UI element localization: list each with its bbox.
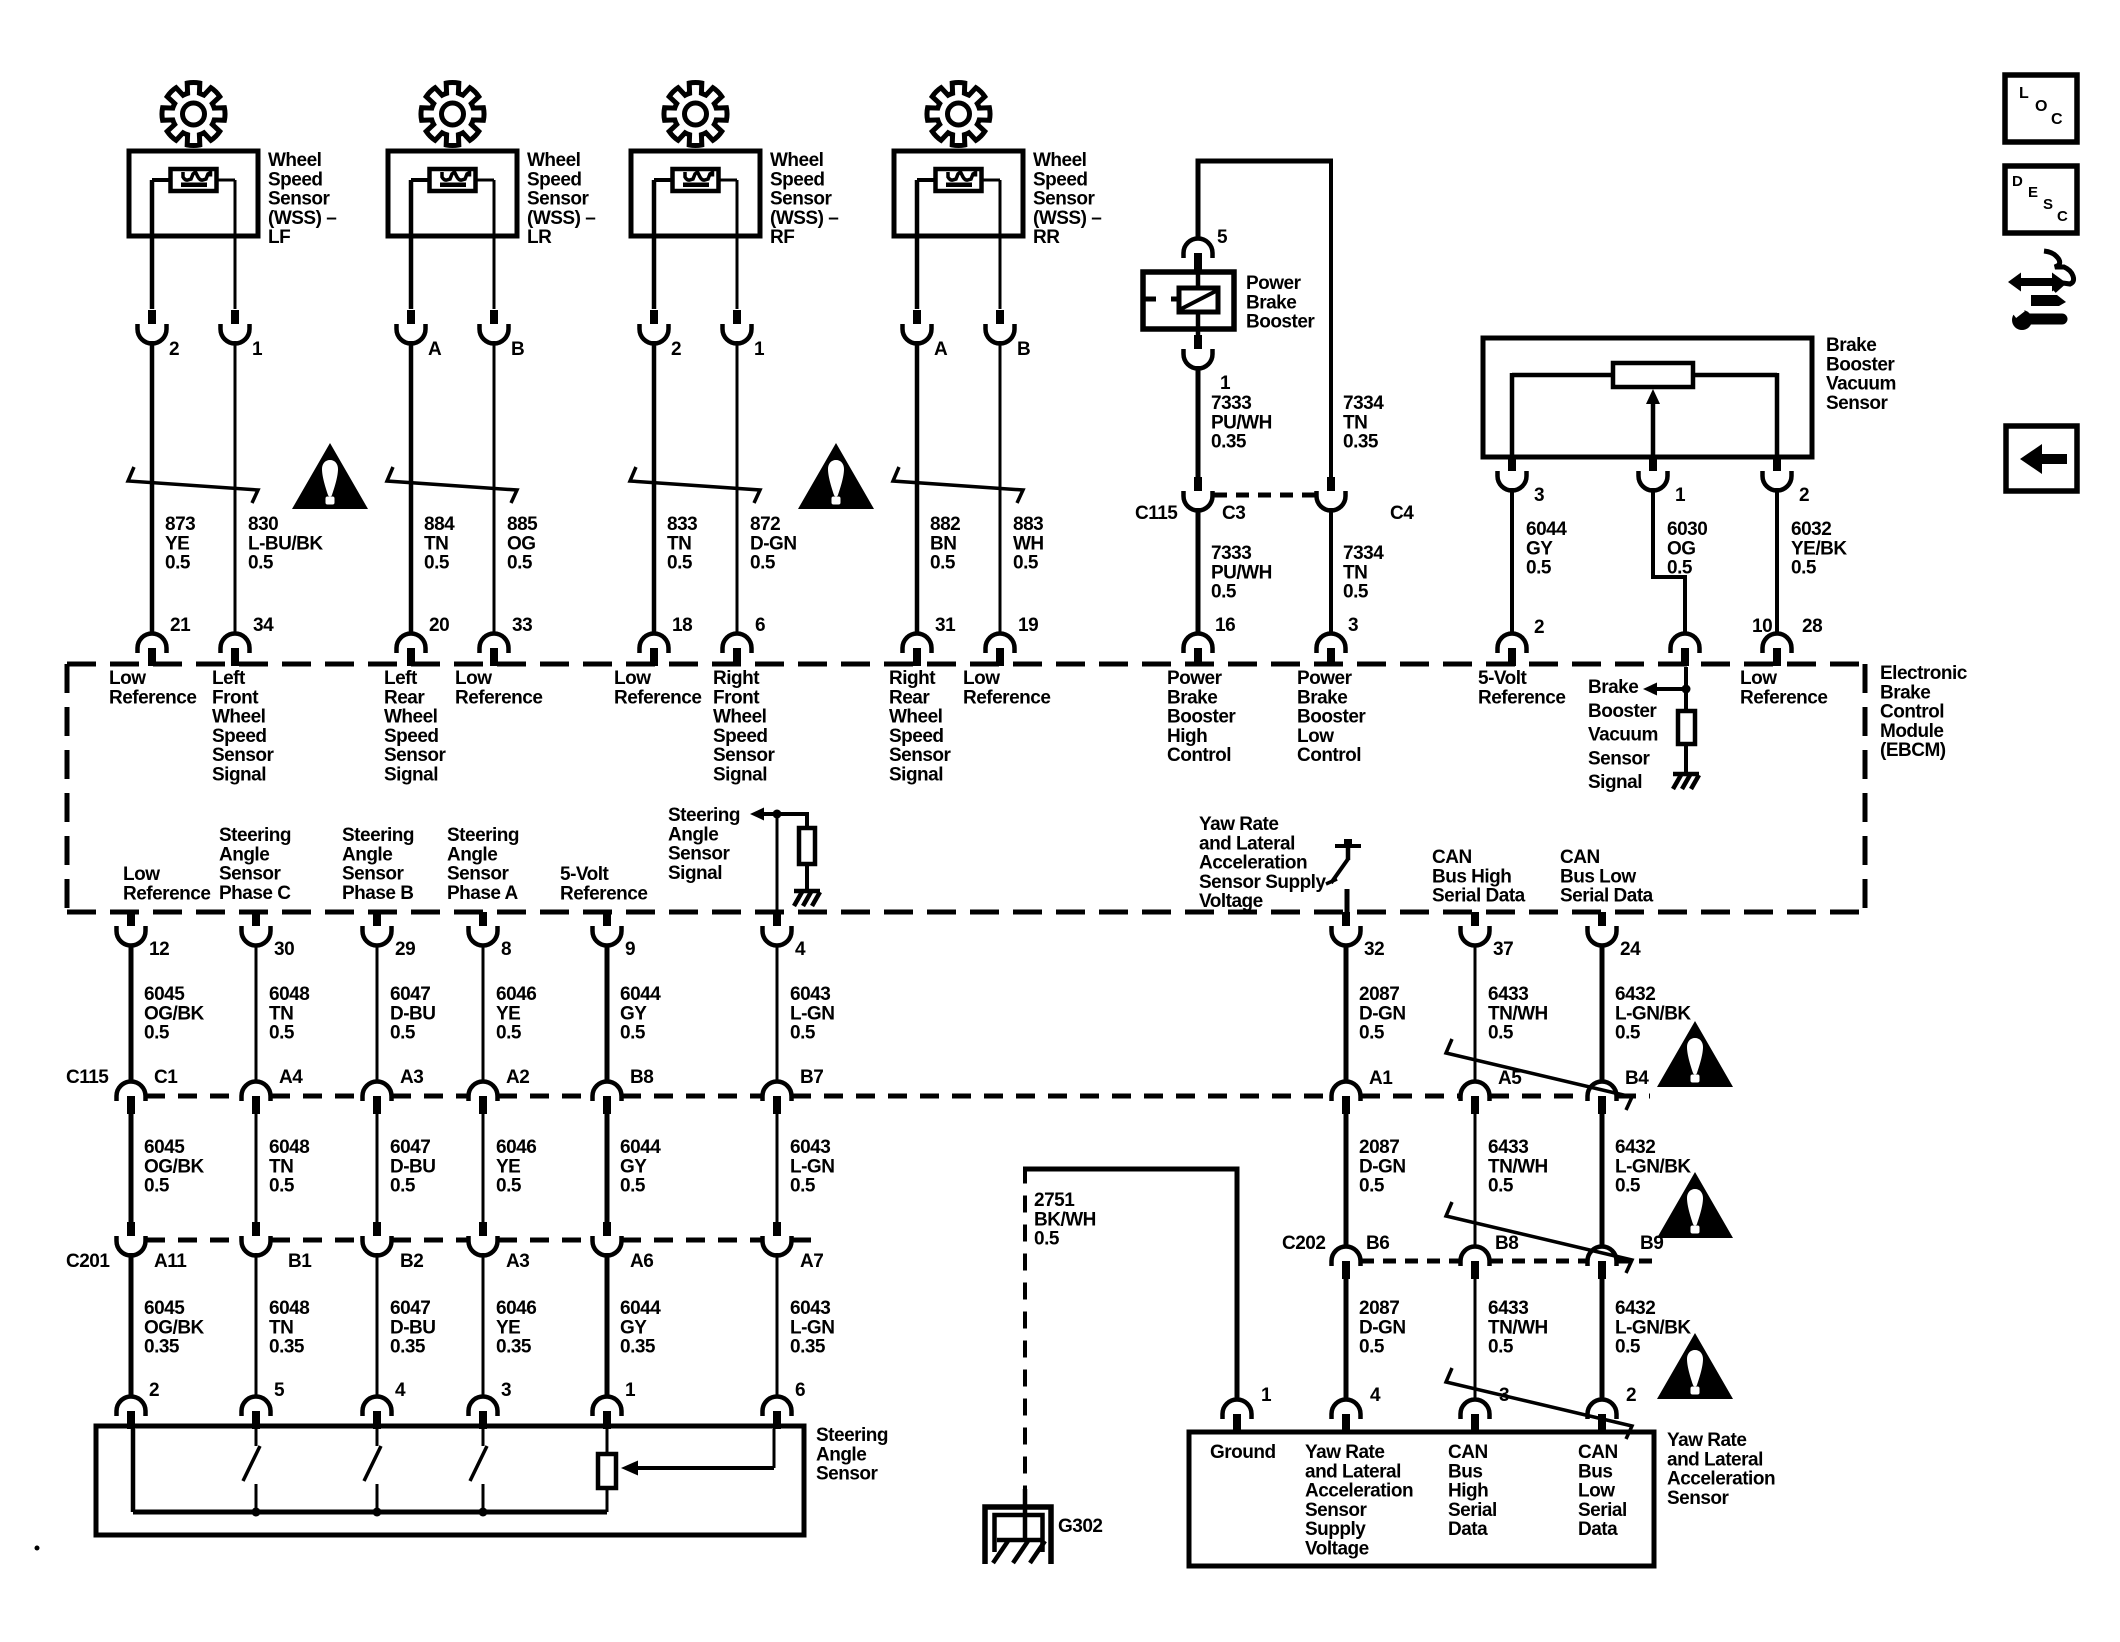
wire 6043 L-GN 0.5 (segment 1) [777,944,834,1082]
svg-text:L-GN: L-GN [790,1317,834,1338]
svg-text:0.35: 0.35 [144,1337,180,1358]
svg-text:O: O [2035,98,2047,115]
svg-text:Data: Data [1448,1519,1488,1540]
svg-text:830: 830 [248,514,278,535]
wire 6432 L-GN/BK 0.5 (segment 3) [1602,1279,1691,1399]
svg-text:1: 1 [1675,485,1686,506]
svg-text:L: L [2019,85,2029,102]
label Wheel Speed Sensor (WSS) - RF [770,150,838,248]
svg-text:0.5: 0.5 [144,1023,170,1044]
svg-text:0.5: 0.5 [790,1023,816,1044]
EBCM pin 31 connector [903,615,957,666]
twisted pair indicator [893,467,1023,503]
wire 6046 YE 0.5 (segment 2) [483,1114,536,1222]
svg-text:0.5: 0.5 [1211,582,1237,603]
svg-text:Bus Low: Bus Low [1560,866,1636,887]
svg-text:C4: C4 [1390,503,1414,524]
wire label 7334 TN 0.35 [1343,393,1384,453]
svg-text:Sensor: Sensor [1667,1488,1730,1509]
EBCM internal label at x=1740 [1740,668,1827,708]
svg-text:0.5: 0.5 [790,1176,816,1197]
svg-text:A2: A2 [506,1067,529,1088]
svg-text:Signal: Signal [668,863,722,884]
svg-text:6043: 6043 [790,1137,830,1158]
svg-text:Right: Right [713,668,760,689]
EBCM internal label CAN Bus High Serial Data [1432,847,1526,907]
svg-text:Data: Data [1578,1519,1618,1540]
svg-text:GY: GY [620,1156,647,1177]
svg-text:0.5: 0.5 [1615,1023,1641,1044]
svg-text:OG/BK: OG/BK [144,1003,205,1024]
svg-text:Wheel: Wheel [212,707,265,728]
connector pin 5 (power brake booster) [1184,227,1229,272]
svg-text:(WSS) –: (WSS) – [1033,208,1101,229]
yaw sensor pin 4 connector [1332,1385,1382,1432]
svg-text:8: 8 [501,939,511,960]
svg-text:Sensor: Sensor [1033,189,1096,210]
svg-text:0.5: 0.5 [1615,1337,1641,1358]
svg-text:2: 2 [671,339,681,360]
wire 6433 TN/WH 0.5 (segment 2) [1475,1114,1548,1247]
twisted pair indicator [387,467,517,503]
svg-text:7334: 7334 [1343,543,1384,564]
svg-text:Reference: Reference [1478,687,1565,708]
svg-text:Speed: Speed [1033,169,1088,190]
svg-text:28: 28 [1802,616,1822,637]
label Electronic Brake Control Module (EBCM) [1880,663,1968,761]
steering angle sensor box [96,1426,804,1535]
power brake booster relay box [1143,272,1234,335]
svg-text:(WSS) –: (WSS) – [770,208,838,229]
EBCM pin 33 connector [480,615,533,666]
svg-text:TN: TN [269,1003,293,1024]
svg-text:Booster: Booster [1297,707,1366,728]
connector C115 (C3 / C4 row) [1135,477,1414,524]
EBCM internal label 5-Volt Reference (pin 9) [560,864,647,904]
svg-text:16: 16 [1215,615,1235,636]
svg-text:(WSS) –: (WSS) – [527,208,595,229]
wire label 882 BN 0.5 [930,514,960,574]
svg-text:A3: A3 [400,1067,423,1088]
wire segment to EBCM pin 21 [150,341,155,633]
connector pin B (WSS LR) [480,310,525,360]
svg-text:Left: Left [212,668,246,689]
yaw sensor pin 2 connector [1588,1385,1637,1432]
svg-text:0.5: 0.5 [1359,1176,1385,1197]
svg-text:Speed: Speed [212,726,267,747]
svg-text:L-GN: L-GN [790,1003,834,1024]
connector pin 1 (WSS LF) [221,310,264,360]
svg-text:and Lateral: and Lateral [1199,833,1295,854]
svg-text:CAN: CAN [1560,847,1600,868]
svg-text:A6: A6 [630,1251,653,1272]
svg-text:E: E [2028,184,2038,201]
svg-text:Yaw Rate: Yaw Rate [1199,814,1278,835]
svg-text:Phase A: Phase A [447,883,519,904]
svg-text:OG: OG [1667,538,1696,559]
connector C201 row [66,1222,823,1272]
EBCM pin 3 connector [1317,615,1359,666]
svg-text:Brake: Brake [1880,682,1930,703]
svg-text:C: C [2057,208,2068,225]
svg-text:Low: Low [1578,1481,1615,1502]
svg-text:L-GN: L-GN [790,1156,834,1177]
svg-text:Sensor: Sensor [770,189,833,210]
steering angle sensor pin 4 connector [363,1380,407,1429]
svg-text:883: 883 [1013,514,1043,535]
EBCM bottom pin 30 connector [242,912,295,960]
svg-text:CAN: CAN [1448,1442,1488,1463]
wire label 833 TN 0.5 [667,514,697,574]
connector pin 2 (WSS LF) [138,310,180,360]
svg-text:Supply: Supply [1305,1519,1366,1540]
svg-text:Angle: Angle [342,844,392,865]
svg-text:C1: C1 [154,1067,178,1088]
icon DESC box [2005,166,2077,233]
svg-text:7333: 7333 [1211,543,1251,564]
EBCM bottom pin 12 connector [117,912,170,960]
wire segment to EBCM pin 19 [999,341,1002,633]
svg-text:Steering: Steering [342,825,414,846]
ground G302 [985,1489,1102,1564]
svg-text:A7: A7 [800,1251,823,1272]
svg-text:GY: GY [1526,538,1553,559]
wire 6432 L-GN/BK 0.5 (segment 1) [1602,944,1691,1082]
svg-text:YE: YE [165,533,189,554]
steering angle sensor pin 3 connector [469,1380,512,1429]
svg-text:B8: B8 [1495,1233,1518,1254]
svg-text:2: 2 [1626,1385,1636,1406]
svg-text:5: 5 [1217,227,1228,248]
steering angle sensor pin 6 connector [763,1380,806,1429]
svg-text:Reference: Reference [560,883,647,904]
svg-text:YE: YE [496,1317,520,1338]
svg-text:873: 873 [165,514,195,535]
wire segment to EBCM pin 20 [409,341,414,633]
wire 6043 L-GN 0.5 (segment 2) [777,1114,834,1222]
wire 873 YE from WSS LF [150,180,155,309]
CAN twisted pair indicator 1 [1446,1039,1632,1110]
wire 883 WH from WSS RR [999,180,1002,309]
svg-text:D-BU: D-BU [390,1156,436,1177]
CAN twisted pair indicator 3 [1446,1368,1632,1439]
svg-text:TN/WH: TN/WH [1488,1156,1548,1177]
svg-text:L-GN/BK: L-GN/BK [1615,1003,1691,1024]
wire segment to EBCM pin 6 [736,341,739,633]
svg-text:Signal: Signal [713,765,767,786]
wire 6048 TN 0.5 (segment 2) [256,1114,309,1222]
svg-text:12: 12 [149,939,169,960]
svg-text:7334: 7334 [1343,393,1384,414]
CAN twisted pair indicator 2 [1446,1202,1632,1273]
svg-text:A: A [428,339,442,360]
svg-text:2: 2 [1799,485,1809,506]
wire 6048 TN 0.35 (segment 3) [256,1253,309,1396]
svg-text:Wheel: Wheel [1033,150,1086,171]
svg-text:884: 884 [424,514,455,535]
svg-text:1: 1 [252,339,263,360]
svg-text:3: 3 [501,1380,511,1401]
svg-text:Module: Module [1880,721,1944,742]
warning triangle (mid) [798,443,874,509]
gear icon (WSS RF) [664,82,727,145]
svg-text:3: 3 [1534,485,1544,506]
wire 6046 YE 0.5 (segment 1) [483,944,536,1082]
label Yaw Rate and Lateral Acceleration Sensor Supply Voltage [1305,1442,1413,1560]
svg-text:4: 4 [795,939,806,960]
svg-text:0.35: 0.35 [390,1337,426,1358]
svg-text:6433: 6433 [1488,1137,1528,1158]
svg-text:Yaw Rate: Yaw Rate [1305,1442,1384,1463]
svg-text:0.5: 0.5 [1359,1023,1385,1044]
label CAN Bus High Serial Data [1448,1442,1497,1540]
svg-text:Signal: Signal [1588,772,1642,793]
EBCM pin 34 connector [221,615,275,666]
svg-text:Phase B: Phase B [342,883,413,904]
EBCM pin 19 connector [986,615,1039,666]
svg-text:0.5: 0.5 [165,553,191,574]
svg-text:(WSS) –: (WSS) – [268,208,336,229]
connector pin A (WSS RR) [903,310,949,360]
EBCM internal circuit: brake booster vacuum sensor signal arrow, resistor, ground [1643,667,1699,789]
svg-text:Speed: Speed [713,726,768,747]
svg-text:PU/WH: PU/WH [1211,562,1272,583]
svg-text:Left: Left [384,668,418,689]
svg-text:Angle: Angle [816,1444,866,1465]
yaw sensor pin 1 connector (ground) [1223,1385,1273,1432]
wire 6032 YE/BK 0.5 [1777,488,1847,633]
svg-text:Right: Right [889,668,936,689]
svg-text:Booster: Booster [1826,354,1895,375]
svg-text:Speed: Speed [889,726,944,747]
svg-text:Brake: Brake [1297,687,1347,708]
svg-text:Phase C: Phase C [219,883,291,904]
connector pin 1 (WSS RF) [723,310,766,360]
svg-text:0.5: 0.5 [390,1176,416,1197]
svg-text:0.5: 0.5 [496,1023,522,1044]
svg-text:TN: TN [667,533,691,554]
svg-text:Low: Low [123,864,160,885]
svg-text:GY: GY [620,1317,647,1338]
svg-text:9: 9 [625,939,635,960]
EBCM bottom pin 4 connector [763,912,807,960]
svg-text:B: B [1017,339,1030,360]
wire 2087 D-GN 0.5 (segment 3) [1346,1279,1406,1399]
svg-text:3: 3 [1348,615,1358,636]
svg-text:1: 1 [754,339,765,360]
label Brake Booster Vacuum Sensor [1826,335,1896,414]
wire 6045 OG/BK 0.35 (segment 3) [131,1253,205,1396]
wire 6045 OG/BK 0.5 (segment 2) [131,1114,205,1222]
svg-text:2087: 2087 [1359,1137,1399,1158]
icon back arrow box [2006,426,2077,491]
svg-text:6046: 6046 [496,984,536,1005]
svg-text:Brake: Brake [1246,292,1296,313]
label Yaw Rate and Lateral Acceleration Sensor [1667,1430,1775,1509]
svg-text:Sensor: Sensor [219,864,282,885]
svg-text:0.35: 0.35 [496,1337,532,1358]
page dot [35,1546,40,1551]
svg-text:Sensor Supply: Sensor Supply [1199,872,1326,893]
svg-text:Serial: Serial [1578,1500,1627,1521]
svg-text:6045: 6045 [144,1137,185,1158]
svg-text:6046: 6046 [496,1298,536,1319]
svg-text:S: S [2043,196,2053,213]
svg-text:0.35: 0.35 [1343,432,1379,453]
svg-text:Booster: Booster [1167,707,1236,728]
svg-text:Low: Low [109,668,146,689]
svg-text:Rear: Rear [889,687,930,708]
svg-text:31: 31 [935,615,956,636]
wire 6030 OG 0.5 [1653,488,1707,633]
svg-text:D-GN: D-GN [1359,1003,1406,1024]
svg-text:B7: B7 [800,1067,823,1088]
svg-text:Reference: Reference [1740,687,1827,708]
EBCM bottom pin 24 connector [1588,912,1642,960]
svg-text:BK/WH: BK/WH [1034,1209,1096,1230]
svg-text:0.5: 0.5 [620,1176,646,1197]
EBCM internal label at x=614 [614,668,701,708]
svg-text:A3: A3 [506,1251,529,1272]
EBCM pin 28 connector [1763,616,1823,666]
svg-text:D-BU: D-BU [390,1003,436,1024]
wire segment to EBCM pin 33 [493,341,496,633]
wire 6044 GY 0.5 [1512,488,1567,633]
svg-text:Ground: Ground [1210,1442,1276,1463]
svg-text:Serial: Serial [1448,1500,1497,1521]
label Wheel Speed Sensor (WSS) - LF [268,150,336,248]
svg-text:(EBCM): (EBCM) [1880,740,1946,761]
EBCM internal label Brake Booster Vacuum Sensor Signal [1588,677,1658,793]
svg-text:Signal: Signal [889,765,943,786]
EBCM internal label at x=384 [384,668,447,786]
svg-text:Brake: Brake [1167,687,1217,708]
svg-text:6047: 6047 [390,984,430,1005]
wire 6044 GY 0.5 (segment 2) [607,1114,661,1222]
EBCM bottom pin 29 connector [363,912,416,960]
EBCM bottom pin 37 connector [1461,912,1514,960]
svg-text:0.5: 0.5 [750,553,776,574]
warning triangle (left) [292,443,368,509]
svg-text:4: 4 [395,1380,406,1401]
svg-text:0.5: 0.5 [269,1176,295,1197]
svg-text:0.35: 0.35 [269,1337,305,1358]
wire segment to EBCM pin 18 [652,341,657,633]
connector pin A (WSS LR) [397,310,443,360]
svg-text:0.35: 0.35 [620,1337,656,1358]
svg-text:Signal: Signal [384,765,438,786]
svg-text:0.5: 0.5 [1488,1023,1514,1044]
svg-text:Reference: Reference [109,687,196,708]
wire 7334 TN 0.5 [1331,508,1384,633]
svg-text:L-GN/BK: L-GN/BK [1615,1317,1691,1338]
svg-text:0.5: 0.5 [1343,582,1369,603]
wheel speed sensor LR box [388,151,517,236]
svg-text:Sensor: Sensor [342,864,405,885]
svg-text:6: 6 [795,1380,805,1401]
wire 6048 TN 0.5 (segment 1) [256,944,309,1082]
wire label 873 YE 0.5 [165,514,195,574]
svg-text:0.5: 0.5 [1526,558,1552,579]
svg-text:21: 21 [170,615,191,636]
svg-text:D-GN: D-GN [1359,1156,1406,1177]
svg-text:5: 5 [274,1380,285,1401]
svg-text:Brake: Brake [1588,677,1638,698]
svg-text:B: B [511,339,524,360]
svg-text:Reference: Reference [455,687,542,708]
svg-text:High: High [1448,1481,1488,1502]
wire 830 L-BU/BK from WSS LF [234,180,237,309]
svg-text:OG/BK: OG/BK [144,1317,205,1338]
svg-text:D-BU: D-BU [390,1317,436,1338]
svg-text:6047: 6047 [390,1137,430,1158]
svg-text:0.5: 0.5 [1359,1337,1385,1358]
svg-text:6045: 6045 [144,1298,185,1319]
svg-text:LR: LR [527,227,552,248]
svg-text:34: 34 [253,615,274,636]
svg-text:LF: LF [268,227,290,248]
svg-text:Vacuum: Vacuum [1826,374,1896,395]
connector C115 (main row) [66,1067,1650,1114]
label Ground [1210,1442,1276,1463]
svg-text:6433: 6433 [1488,984,1528,1005]
svg-text:TN: TN [424,533,448,554]
wire 885 OG from WSS LR [493,180,496,309]
svg-text:YE/BK: YE/BK [1791,538,1847,559]
svg-text:Sensor: Sensor [1826,393,1889,414]
svg-text:OG/BK: OG/BK [144,1156,205,1177]
svg-text:Bus High: Bus High [1432,866,1511,887]
svg-text:6046: 6046 [496,1137,536,1158]
wire 6047 D-BU 0.35 (segment 3) [377,1253,436,1396]
connector C202 row [1282,1233,1663,1279]
wire segment to EBCM pin 31 [915,341,920,633]
svg-text:Voltage: Voltage [1305,1539,1369,1560]
svg-text:Wheel: Wheel [713,707,766,728]
wire 7333 PU/WH 0.5 [1198,508,1272,633]
wire 6047 D-BU 0.5 (segment 1) [377,944,436,1082]
svg-text:Speed: Speed [527,169,582,190]
svg-text:Sensor: Sensor [816,1464,879,1485]
svg-text:885: 885 [507,514,538,535]
label Wheel Speed Sensor (WSS) - RR [1033,150,1101,248]
svg-text:0.5: 0.5 [1488,1337,1514,1358]
wire label 884 TN 0.5 [424,514,455,574]
yaw rate and lateral acceleration sensor box [1189,1432,1654,1566]
wire 6044 GY 0.5 (segment 1) [607,944,661,1082]
wire 2087 D-GN 0.5 (segment 1) [1346,944,1406,1082]
svg-text:2: 2 [1534,617,1544,638]
svg-text:Control: Control [1167,745,1231,766]
EBCM bottom pin 32 connector [1332,912,1385,960]
warning triangle yaw sensor [1657,1333,1733,1399]
svg-text:Wheel: Wheel [268,150,321,171]
EBCM bottom pin 8 connector [469,912,512,960]
gear icon (WSS RR) [927,82,990,145]
connector pin B (WSS RR) [986,310,1031,360]
svg-text:Angle: Angle [668,824,718,845]
svg-text:Front: Front [713,687,760,708]
gear icon (WSS LF) [162,82,225,145]
svg-text:Sensor: Sensor [889,745,952,766]
svg-text:Speed: Speed [770,169,825,190]
label Wheel Speed Sensor (WSS) - LR [527,150,595,248]
svg-text:0.5: 0.5 [667,553,693,574]
EBCM internal label at x=713 [713,668,776,786]
wire 6047 D-BU 0.5 (segment 2) [377,1114,436,1222]
svg-text:B6: B6 [1366,1233,1389,1254]
svg-text:YE: YE [496,1156,520,1177]
